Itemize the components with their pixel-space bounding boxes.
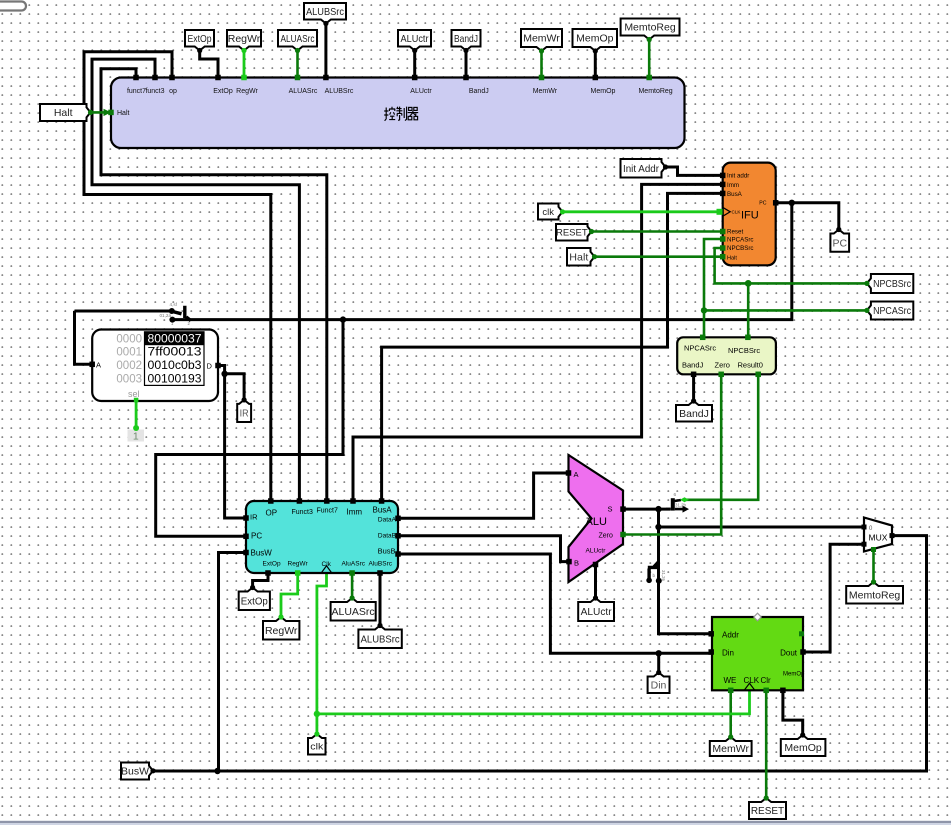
svg-text:Funct7: Funct7	[317, 508, 339, 515]
svg-text:80000037: 80000037	[148, 333, 202, 345]
svg-text:0003: 0003	[116, 373, 142, 385]
svg-text:0010c0b3: 0010c0b3	[148, 360, 202, 372]
svg-text:Imm: Imm	[727, 182, 739, 189]
svg-text:NPCASrc: NPCASrc	[873, 305, 911, 317]
svg-text:A: A	[96, 361, 101, 370]
svg-text:BusA: BusA	[727, 191, 743, 198]
svg-text:RESET: RESET	[556, 228, 588, 239]
svg-text:NPCBSrc: NPCBSrc	[728, 346, 760, 355]
svg-text:MemOp: MemOp	[576, 33, 614, 45]
svg-text:ALUctr: ALUctr	[586, 548, 607, 555]
svg-text:BandJ: BandJ	[679, 408, 709, 420]
svg-text:Halt: Halt	[117, 110, 130, 117]
svg-text:b: b	[653, 573, 656, 578]
svg-text:ALUASrc: ALUASrc	[281, 33, 315, 45]
svg-text:Dout: Dout	[780, 649, 798, 658]
svg-text:Halt: Halt	[54, 107, 73, 119]
svg-text:OP: OP	[266, 509, 278, 518]
svg-text:NPCBSrc: NPCBSrc	[873, 278, 911, 290]
svg-text:4,sf: 4,sf	[170, 302, 178, 307]
svg-text:funct3: funct3	[145, 88, 164, 95]
svg-text:1: 1	[133, 430, 139, 442]
svg-text:NPCASrc: NPCASrc	[727, 237, 753, 244]
svg-text:BandJ: BandJ	[682, 361, 704, 370]
svg-text:MemOp: MemOp	[783, 672, 805, 678]
svg-text:RESET: RESET	[751, 806, 784, 817]
svg-text:WE: WE	[724, 676, 737, 685]
svg-text:Zero: Zero	[599, 533, 614, 540]
svg-text:CLK: CLK	[732, 210, 742, 215]
svg-text:MUX: MUX	[869, 533, 888, 543]
svg-text:ALUctr: ALUctr	[410, 88, 432, 95]
svg-text:ExtOp: ExtOp	[213, 88, 233, 95]
svg-text:01,2a: 01,2a	[160, 313, 172, 318]
svg-text:RegWr: RegWr	[228, 33, 261, 45]
svg-text:ExtOp: ExtOp	[241, 595, 268, 607]
svg-text:ALUctr: ALUctr	[581, 606, 612, 618]
svg-text:DataB: DataB	[378, 533, 396, 540]
svg-text:PC: PC	[759, 201, 766, 207]
svg-text:AluBSrc: AluBSrc	[369, 561, 393, 568]
svg-text:D: D	[207, 362, 213, 371]
svg-text:ALUBSrc: ALUBSrc	[325, 88, 354, 95]
svg-text:Result0: Result0	[738, 361, 763, 370]
svg-text:ALUctr: ALUctr	[401, 33, 429, 45]
svg-text:op: op	[169, 88, 177, 95]
svg-text:MemOp: MemOp	[591, 88, 616, 95]
svg-text:Addr: Addr	[722, 631, 739, 640]
svg-text:clk: clk	[542, 207, 554, 218]
svg-text:ALUASrc: ALUASrc	[332, 606, 375, 618]
svg-text:S: S	[608, 505, 613, 514]
svg-text:IFU: IFU	[741, 210, 759, 222]
svg-text:B: B	[574, 559, 579, 568]
svg-text:ALU: ALU	[586, 516, 607, 528]
svg-text:ALUBSrc: ALUBSrc	[361, 633, 400, 645]
svg-text:funct7: funct7	[127, 88, 146, 95]
svg-text:BandJ: BandJ	[469, 88, 489, 95]
svg-text:RegWr: RegWr	[236, 88, 258, 95]
svg-text:PC: PC	[833, 237, 848, 249]
svg-text:IR: IR	[240, 408, 249, 420]
svg-text:NPCBSrc: NPCBSrc	[727, 245, 753, 252]
svg-text:RegWr: RegWr	[265, 625, 298, 637]
svg-text:MemtoReg: MemtoReg	[624, 22, 676, 34]
svg-text:DataA: DataA	[378, 517, 397, 524]
svg-text:MemWr: MemWr	[712, 743, 749, 755]
svg-text:PC: PC	[251, 532, 262, 541]
svg-text:Funct3: Funct3	[292, 509, 314, 516]
svg-text:BusB: BusB	[378, 547, 396, 556]
svg-text:00100193: 00100193	[148, 373, 202, 385]
svg-text:Clr: Clr	[761, 676, 772, 685]
svg-text:MemtoReg: MemtoReg	[849, 589, 901, 601]
svg-text:ExtOp: ExtOp	[263, 561, 281, 568]
svg-text:BusA: BusA	[373, 506, 393, 515]
svg-text:MemtoReg: MemtoReg	[638, 88, 672, 95]
svg-text:Init Addr: Init Addr	[623, 163, 659, 175]
svg-text:BusW: BusW	[121, 766, 149, 778]
svg-text:0001: 0001	[116, 347, 142, 359]
svg-text:Zero: Zero	[715, 361, 730, 370]
svg-text:Din: Din	[651, 679, 667, 691]
svg-text:31,2b: 31,2b	[675, 503, 687, 508]
svg-text:IR: IR	[250, 513, 258, 522]
svg-text:ExtOp: ExtOp	[188, 33, 212, 45]
svg-text:RegWr: RegWr	[288, 561, 309, 568]
svg-text:Reset: Reset	[727, 229, 743, 236]
svg-text:Halt: Halt	[727, 256, 737, 262]
svg-text:7ff00013: 7ff00013	[148, 347, 202, 359]
svg-text:MemOp: MemOp	[784, 742, 822, 754]
svg-text:MemWr: MemWr	[533, 88, 558, 95]
svg-text:Init addr: Init addr	[727, 173, 749, 180]
svg-text:BusW: BusW	[251, 549, 273, 558]
svg-text:A: A	[574, 470, 579, 479]
svg-text:Imm: Imm	[347, 508, 363, 517]
svg-text:CLK: CLK	[744, 676, 760, 685]
svg-text:ALUBSrc: ALUBSrc	[306, 6, 344, 18]
svg-text:0002: 0002	[116, 360, 142, 372]
svg-text:BandJ: BandJ	[454, 33, 478, 45]
svg-text:AluASrc: AluASrc	[342, 561, 366, 568]
svg-text:ALUASrc: ALUASrc	[289, 88, 318, 95]
svg-text:31,26: 31,26	[661, 570, 666, 582]
svg-text:Clk: Clk	[322, 561, 332, 568]
svg-text:MemWr: MemWr	[523, 33, 560, 45]
svg-text:NPCASrc: NPCASrc	[684, 344, 716, 353]
svg-text:sel: sel	[128, 389, 140, 399]
svg-text:Halt: Halt	[569, 251, 588, 263]
svg-text:Din: Din	[722, 649, 734, 658]
svg-text:clk: clk	[310, 742, 323, 753]
svg-text:6: 6	[674, 492, 677, 498]
svg-text:0000: 0000	[116, 333, 142, 345]
